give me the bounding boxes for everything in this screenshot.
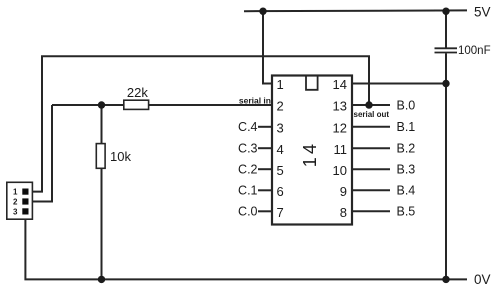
svg-text:0V: 0V <box>474 272 491 287</box>
wire: IC pin 13 to B.0 <box>352 104 390 106</box>
connector J1 pin 2 pad <box>22 198 28 204</box>
svg-text:12: 12 <box>333 120 347 135</box>
svg-text:5V: 5V <box>474 5 491 20</box>
svg-text:11: 11 <box>334 142 348 157</box>
connector J1 pin 1 pad <box>22 189 28 195</box>
svg-text:C.3: C.3 <box>238 142 258 156</box>
wire: IC pin 5 input C.2 <box>258 168 272 170</box>
wire: IC pin 3 input C.4 <box>258 126 272 128</box>
svg-text:14: 14 <box>333 77 347 92</box>
svg-text:B.1: B.1 <box>397 120 416 134</box>
wire: IC pin 4 input C.3 <box>258 147 272 149</box>
svg-text:13: 13 <box>333 99 347 114</box>
node: 10k / 0V rail junction <box>98 276 105 283</box>
svg-text:7: 7 <box>277 205 284 220</box>
svg-text:22k: 22k <box>127 85 148 100</box>
resistor R1 22k (horizontal box) <box>124 100 149 109</box>
svg-text:B.2: B.2 <box>397 142 416 156</box>
wire: 5V rail down to capacitor top plate <box>445 11 447 47</box>
svg-text:B.4: B.4 <box>397 184 416 198</box>
svg-text:B.0: B.0 <box>397 98 416 112</box>
wire: IC pin 9 to B.4 <box>352 189 390 191</box>
svg-text:2: 2 <box>13 197 18 206</box>
capacitor C1 plates <box>435 48 458 52</box>
IC U1 pin-1 notch <box>306 76 318 90</box>
wire: serial in line through 22k resistor to IC pin 2 <box>52 104 272 106</box>
wire: 5V rail down and across to IC pin 1 <box>263 11 272 83</box>
svg-text:B.5: B.5 <box>397 205 416 219</box>
node: 5V rail / capacitor junction <box>442 8 449 15</box>
wire: IC pin 12 to B.1 <box>352 126 390 128</box>
svg-text:10k: 10k <box>110 149 131 164</box>
resistor R2 10k (vertical box) <box>96 144 105 169</box>
wire: IC pin 6 input C.1 <box>258 189 272 191</box>
node: 5V rail / pin-1 branch junction <box>259 8 266 15</box>
wire: IC pin 7 input C.0 <box>258 210 272 212</box>
svg-text:3: 3 <box>13 207 18 216</box>
svg-text:4: 4 <box>277 142 284 157</box>
wire: IC pin 10 to B.3 <box>352 168 390 170</box>
svg-text:14: 14 <box>300 141 320 167</box>
svg-text:100nF: 100nF <box>458 45 491 57</box>
svg-text:10: 10 <box>333 163 347 178</box>
wire: connector pin 1 up and across to serial out node <box>29 56 370 191</box>
wire: capacitor bottom plate down to 0V rail <box>445 53 447 279</box>
svg-text:5: 5 <box>277 163 284 178</box>
svg-text:C.2: C.2 <box>238 163 258 177</box>
svg-text:serial out: serial out <box>354 110 390 119</box>
wire: IC pin 14 to 5V/capacitor branch <box>352 83 446 85</box>
wire: IC pin 11 to B.2 <box>352 147 390 149</box>
svg-text:3: 3 <box>277 120 284 135</box>
svg-text:1: 1 <box>13 188 18 197</box>
svg-text:9: 9 <box>340 184 347 199</box>
IC U1 body (14-pin) <box>272 76 352 225</box>
node: pin 14 / capacitor branch junction <box>442 80 449 87</box>
svg-text:B.3: B.3 <box>397 163 416 177</box>
svg-text:8: 8 <box>340 205 347 220</box>
svg-text:C.4: C.4 <box>238 120 258 134</box>
svg-text:C.0: C.0 <box>238 205 258 219</box>
wire: connector pin 3 down to 0V rail <box>25 215 467 279</box>
svg-text:1: 1 <box>277 77 284 92</box>
wire: IC pin 8 to B.5 <box>352 210 390 212</box>
node: serial in / 10k junction <box>98 101 105 108</box>
connector J1 body (3-pin programming header) <box>7 182 33 219</box>
svg-text:2: 2 <box>277 99 284 114</box>
node: capacitor branch / 0V rail junction <box>442 276 449 283</box>
node: serial out junction <box>365 101 372 108</box>
svg-text:serial in: serial in <box>239 96 271 106</box>
svg-text:6: 6 <box>277 184 284 199</box>
connector J1 pin 3 pad <box>22 208 28 214</box>
svg-text:C.1: C.1 <box>238 184 258 198</box>
wire: 5V supply rail <box>244 9 467 12</box>
wire: connector pin 2 up to serial in line <box>29 105 53 202</box>
wire: 10k resistor branch down to 0V rail <box>101 105 103 279</box>
